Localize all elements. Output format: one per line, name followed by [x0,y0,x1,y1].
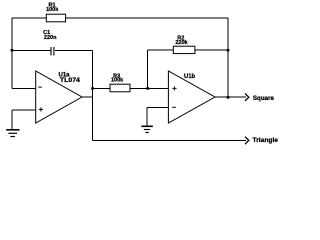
capacitor C1 [51,47,54,55]
ground for U1a plus input [6,130,19,137]
svg-text:Square: Square [253,95,274,102]
node Square output arrow [245,94,249,101]
op-amp U1b [168,71,215,123]
resistor R1 [46,14,65,22]
wire triangle output rail [93,139,246,141]
wire R2 left lead vertical [147,50,149,88]
wire U1b minus input to ground [146,108,148,127]
wire left vertical feedback [11,18,13,88]
node junction C1 / left vertical [11,49,14,52]
node junction U1a output / R3 net [91,87,94,90]
wire U1b output to Square arrow [215,96,246,98]
wire R2 horizontal [148,49,228,51]
svg-text:Triangle: Triangle [253,137,279,144]
wire C1 right lead [55,49,93,51]
node junction R2 / right vertical [227,49,230,52]
op-amp U1a [36,71,82,123]
node Triangle output arrow [245,137,249,144]
wire top rail from left vertical to right vertical [12,17,228,19]
svg-text:TL074: TL074 [60,77,81,84]
wire U1b inverting input [147,107,168,109]
svg-text:100k: 100k [46,7,59,13]
svg-text:220k: 220k [175,40,188,46]
wire vertical from C1 to U1a output and triangle rail [92,50,94,140]
node junction right vertical / square output [227,96,230,99]
resistor R2 [173,46,195,53]
wire right vertical from top rail to square output [227,18,229,97]
node junction R2 lead / U1b plus net [146,87,149,90]
wire U1a inverting input [12,87,36,89]
wire U1a non-inverting input [12,109,36,111]
svg-text:220n: 220n [44,35,57,41]
svg-text:100k: 100k [111,78,124,84]
wire U1a plus input to ground [11,110,13,129]
wire R3 net to U1b plus input [93,87,169,89]
wire U1a output [82,96,93,98]
wire C1 left lead [12,49,51,51]
ground for U1b minus input [141,126,153,132]
resistor R3 [110,84,130,92]
svg-text:U1b: U1b [184,73,195,80]
